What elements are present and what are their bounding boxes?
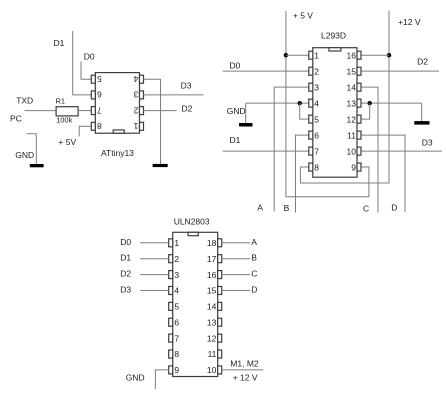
ground bar under ATtiny13 — [153, 164, 168, 167]
svg-text:A: A — [257, 203, 263, 213]
junction +12V pin 16 — [387, 53, 391, 57]
svg-text:GND: GND — [227, 106, 246, 116]
svg-text:10: 10 — [207, 365, 217, 375]
svg-text:8: 8 — [97, 121, 102, 131]
svg-text:4: 4 — [314, 98, 319, 108]
svg-text:5: 5 — [97, 74, 102, 84]
svg-text:4: 4 — [133, 74, 138, 84]
wire D1 to U3 pin 2 — [140, 258, 169, 260]
svg-text:ULN2803: ULN2803 — [174, 217, 210, 227]
svg-text:1: 1 — [174, 238, 179, 248]
svg-text:7: 7 — [174, 333, 179, 343]
wire U2 pin 4 to pin 5 — [300, 103, 309, 119]
wire U3 pin 17 to node B — [222, 258, 251, 260]
svg-text:D: D — [391, 202, 397, 212]
wire U3 pin 16 to node C — [222, 274, 251, 276]
IC U1 ATtiny13 body and pins — [95, 73, 139, 134]
svg-text:8: 8 — [314, 162, 319, 172]
svg-text:D1: D1 — [120, 253, 131, 263]
wire D0 to U2 pin 2 — [223, 70, 309, 72]
IC U2 L293D body and pins — [313, 48, 357, 178]
svg-text:3: 3 — [174, 270, 179, 280]
svg-text:PC: PC — [10, 114, 22, 124]
wire U3 pin 10 to motor common — [222, 369, 264, 371]
svg-text:D2: D2 — [417, 56, 428, 66]
svg-text:4: 4 — [174, 286, 179, 296]
svg-text:GND: GND — [15, 150, 34, 160]
wire D0 to U3 pin 1 — [140, 242, 169, 244]
svg-text:TXD: TXD — [16, 95, 33, 105]
svg-text:7: 7 — [314, 146, 319, 156]
svg-text:D1: D1 — [230, 135, 241, 145]
wire U2 pin 14 to node C — [361, 87, 378, 212]
svg-text:M1, M2: M1, M2 — [230, 359, 259, 369]
wire D1 to U2 pin 7 — [223, 150, 309, 152]
wire +5V rail to U2 pin 9 — [286, 11, 369, 197]
wire GND to U3 pin 9 — [155, 370, 168, 389]
ground bar L293D left — [239, 123, 253, 127]
junction +5V pin 1 — [284, 53, 288, 57]
wire U2 pin 13 to pin 12 — [361, 103, 370, 119]
svg-text:12: 12 — [347, 114, 357, 124]
wire +12V to U2 pin 16 — [361, 54, 389, 56]
notch ULN2803 — [188, 232, 198, 235]
svg-text:C: C — [251, 269, 257, 279]
ground bar L293D right — [414, 121, 429, 125]
wire U2 pin 3 to node A — [274, 87, 309, 211]
wire D2 from U1 pin 2 — [144, 110, 177, 112]
ground GND left wire — [27, 134, 37, 164]
svg-text:5: 5 — [174, 302, 179, 312]
svg-text:+ 5V: + 5V — [58, 137, 76, 147]
resistor R1 — [56, 107, 78, 116]
svg-text:D: D — [251, 284, 257, 294]
svg-text:16: 16 — [347, 50, 357, 60]
svg-text:B: B — [284, 203, 290, 213]
svg-text:1: 1 — [314, 50, 319, 60]
svg-text:2: 2 — [174, 254, 179, 264]
svg-text:7: 7 — [97, 105, 102, 115]
svg-text:D3: D3 — [181, 81, 192, 91]
svg-text:100k: 100k — [56, 116, 73, 125]
svg-text:2: 2 — [314, 66, 319, 76]
svg-text:B: B — [251, 253, 257, 263]
wire U3 pin 15 to node D — [222, 289, 251, 291]
svg-text:9: 9 — [174, 365, 179, 375]
svg-text:D2: D2 — [182, 104, 193, 114]
junction U2 pin 13 — [368, 101, 372, 105]
wire D0 to U1 pin 5 — [81, 62, 91, 80]
svg-text:R1: R1 — [56, 97, 66, 106]
wire U2 pin 11 to node D — [361, 135, 405, 212]
svg-text:11: 11 — [347, 130, 356, 140]
svg-text:ATtiny13: ATtiny13 — [101, 148, 134, 158]
notch ATtiny13 — [113, 130, 124, 133]
wire U1 pin 4 to ground — [144, 79, 161, 164]
svg-text:D3: D3 — [120, 284, 131, 294]
svg-text:D0: D0 — [230, 60, 241, 70]
junction U2 pin 4 — [298, 101, 302, 105]
wire +5V to U2 pin 1 — [286, 54, 309, 56]
ground bar left — [30, 164, 44, 167]
wire D2 to U3 pin 3 — [140, 274, 169, 276]
svg-text:3: 3 — [314, 82, 319, 92]
IC U3 ULN2803 body and pins — [173, 232, 218, 376]
svg-text:+ 12 V: + 12 V — [233, 373, 258, 383]
svg-text:6: 6 — [174, 317, 179, 327]
wire R1 to U1 pin 7 — [78, 110, 91, 112]
svg-text:GND: GND — [126, 372, 145, 382]
svg-text:15: 15 — [207, 286, 217, 296]
svg-text:9: 9 — [351, 162, 356, 172]
svg-text:D2: D2 — [120, 269, 131, 279]
svg-text:18: 18 — [207, 238, 217, 248]
wire U2 pin 10 to D3 — [361, 150, 442, 152]
wire U2 pin 6 to node B — [296, 135, 309, 212]
svg-text:11: 11 — [208, 349, 217, 359]
svg-text:D0: D0 — [84, 51, 95, 61]
wire U3 pin 18 to node A — [222, 242, 251, 244]
svg-text:L293D: L293D — [321, 31, 346, 41]
svg-text:16: 16 — [207, 270, 217, 280]
svg-text:6: 6 — [97, 90, 102, 100]
svg-text:13: 13 — [347, 98, 357, 108]
svg-text:1: 1 — [133, 121, 138, 131]
svg-text:2: 2 — [133, 105, 138, 115]
svg-text:10: 10 — [347, 146, 357, 156]
svg-text:D3: D3 — [422, 137, 433, 147]
notch L293D — [329, 48, 341, 51]
wire GND drop — [245, 103, 247, 123]
svg-text:14: 14 — [347, 82, 357, 92]
wire +12V rail to U2 pin 8 — [300, 11, 389, 184]
wire U2 pin 15 to D2 — [361, 70, 439, 72]
svg-text:A: A — [251, 237, 257, 247]
svg-text:3: 3 — [133, 90, 138, 100]
svg-text:+12 V: +12 V — [398, 17, 421, 27]
svg-text:12: 12 — [207, 333, 217, 343]
wire U2 pin 13 to ground — [361, 102, 422, 104]
wire D3 to U3 pin 4 — [140, 289, 169, 291]
svg-text:5: 5 — [314, 114, 319, 124]
svg-text:+ 5 V: + 5 V — [293, 11, 313, 21]
svg-text:D0: D0 — [120, 237, 131, 247]
svg-text:13: 13 — [207, 317, 217, 327]
wire +5V to U1 pin 8 — [79, 126, 91, 136]
wire TXD to R1 — [25, 110, 56, 112]
svg-text:15: 15 — [347, 66, 357, 76]
wire right ground drop — [421, 103, 423, 121]
svg-text:D1: D1 — [54, 38, 65, 48]
wire GND to U2 pin 4 — [246, 102, 309, 104]
svg-text:17: 17 — [207, 254, 217, 264]
svg-text:6: 6 — [314, 130, 319, 140]
wire D1 to U1 pin 6 — [73, 31, 92, 95]
wire D3 from U1 pin 3 — [144, 94, 204, 96]
svg-text:14: 14 — [207, 302, 217, 312]
svg-text:C: C — [363, 204, 369, 214]
svg-text:8: 8 — [174, 349, 179, 359]
